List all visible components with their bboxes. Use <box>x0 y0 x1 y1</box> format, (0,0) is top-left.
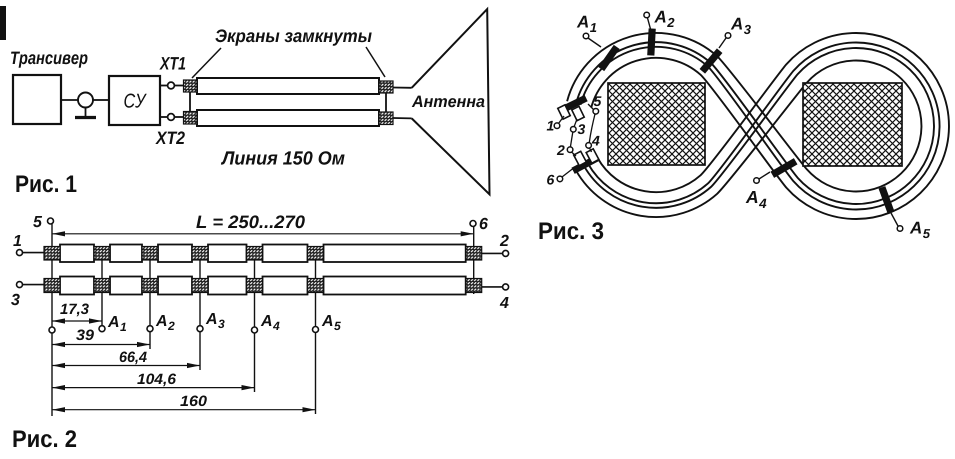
ferrite block right <box>803 83 902 166</box>
terminal circle 6 <box>557 176 563 182</box>
coax line top rect <box>197 78 379 94</box>
label 1 <box>13 235 21 246</box>
braid blocks bottom row <box>44 279 482 293</box>
extension line A3 <box>199 253 201 370</box>
braid block XT1 left <box>184 80 198 92</box>
tap circle A4 <box>754 178 760 184</box>
wire terminal 3 to lug <box>574 119 577 127</box>
wire jumper 3-2 <box>570 132 572 147</box>
label A5 <box>322 315 341 330</box>
braid block bottom right <box>379 112 393 125</box>
terminal bar upper <box>560 95 587 113</box>
shield jumper left <box>189 91 191 112</box>
tap circle A1 <box>583 33 589 39</box>
terminal circle 5 <box>593 109 599 115</box>
connector XT1 circle <box>168 82 175 89</box>
terminal circle 3 <box>571 127 577 133</box>
line sections top row <box>60 245 466 263</box>
caption Рис. 3 <box>540 222 604 239</box>
tap bar A5 <box>878 186 894 214</box>
wire terminal 5 stub <box>588 104 594 110</box>
extension line A4 <box>254 253 256 392</box>
label Трансивер <box>11 52 88 68</box>
pointer line right <box>366 47 385 77</box>
terminal circle 4 <box>586 143 592 149</box>
terminal 6 circle <box>470 221 476 227</box>
wire line to antenna bottom <box>393 117 412 119</box>
label 160 <box>180 396 207 407</box>
shield jumper right <box>385 91 387 112</box>
ferrite block left <box>608 83 705 165</box>
label 6 <box>547 175 554 185</box>
dimension 104,6 <box>53 387 255 389</box>
lug terminal 2 <box>574 151 587 165</box>
label 3 <box>578 124 586 134</box>
wire terminal 4 to lug <box>590 148 592 152</box>
tap bar A3 <box>700 48 723 73</box>
wire terminal 2 <box>482 252 503 254</box>
terminal 4 circle <box>503 284 509 290</box>
label СУ <box>124 94 146 108</box>
extension line A2 <box>149 253 151 349</box>
braid block top right <box>379 81 393 93</box>
tap circle A4 <box>252 327 258 333</box>
label 5 <box>594 96 602 106</box>
extension line datum 5 <box>51 224 53 416</box>
caption Рис. 2 <box>14 430 77 447</box>
label Экраны замкнуты <box>215 29 371 45</box>
lug terminal 4 <box>586 149 599 163</box>
label A4 <box>746 191 767 208</box>
wire tap A4 <box>759 172 770 179</box>
terminal 3 circle <box>17 282 23 288</box>
wire XT2 to line <box>175 116 185 118</box>
dimension L <box>53 233 474 235</box>
wire figure-8 strand 3 <box>581 43 940 210</box>
label 3 <box>11 294 20 305</box>
braid block XT2 left <box>184 112 198 125</box>
extension line A5 <box>315 253 317 414</box>
dimension 17,3 <box>53 320 102 322</box>
wire meter to CY box <box>93 99 109 101</box>
extension line A1 <box>101 253 103 331</box>
tap circle A5 <box>897 226 903 232</box>
tap circle A3 <box>725 33 731 39</box>
label L = 250...270 <box>196 215 304 228</box>
lug terminal 1 <box>558 105 570 119</box>
terminal circle 2 <box>567 147 573 153</box>
tap circle A2 <box>644 12 650 18</box>
label 4 <box>500 297 509 308</box>
tap circle datum <box>49 327 55 333</box>
label A3 <box>731 18 751 34</box>
label A2 <box>156 315 175 330</box>
pointer line left <box>192 48 221 78</box>
label 1 <box>547 121 554 131</box>
dimension 39 <box>53 344 150 346</box>
label 2 <box>557 145 565 155</box>
dimension 66,4 <box>53 365 200 367</box>
tap bar A1 <box>598 45 619 71</box>
wire terminal 6 <box>562 169 573 178</box>
wire terminal 3 <box>22 284 44 286</box>
dimension 160 <box>53 409 316 411</box>
wire terminal 2 to lug <box>572 152 577 156</box>
label 4 <box>592 136 600 146</box>
label A5 <box>910 222 931 238</box>
tap circle A2 <box>147 326 153 332</box>
connector XT2 circle <box>168 114 175 121</box>
antenna triangle <box>412 9 490 194</box>
label Линия 150 Ом <box>221 151 345 165</box>
transceiver box <box>13 75 61 124</box>
terminal 5 circle <box>48 218 54 224</box>
wire tap A1 <box>588 38 601 47</box>
tap bar A2 <box>647 28 656 55</box>
tap circle A1 <box>99 326 105 332</box>
wire tap A2 <box>648 18 651 29</box>
tap bar A4 <box>771 158 798 178</box>
tap circle A3 <box>197 326 203 332</box>
matching unit box U1 <box>109 76 160 125</box>
terminal circle 1 <box>554 123 560 129</box>
meter stem <box>85 108 87 117</box>
label 66,4 <box>120 352 147 365</box>
label XT2 <box>155 131 185 144</box>
wire figure-8 strand 2 <box>576 42 934 208</box>
wire terminal 1 <box>559 116 565 124</box>
wire figure-8 strand 1 <box>567 33 921 217</box>
line sections bottom row <box>60 277 466 295</box>
wire line to antenna top <box>393 87 412 89</box>
label A3 <box>206 313 225 328</box>
wire transceiver to meter <box>61 99 78 101</box>
coax line bottom rect <box>197 110 379 126</box>
wire CY to XT2 <box>160 116 168 118</box>
label 17,3 <box>60 304 89 317</box>
label 6 <box>480 218 488 229</box>
label 104,6 <box>137 374 176 387</box>
wire CY to XT1 <box>160 85 168 87</box>
terminal bar lower <box>571 155 598 174</box>
wire tap A5 <box>891 213 898 226</box>
label A1 <box>577 16 597 32</box>
label 5 <box>33 216 42 227</box>
label A2 <box>654 11 674 27</box>
wire tap A3 <box>719 38 726 48</box>
wire jumper 5-4 <box>589 114 595 143</box>
label 2 <box>500 235 509 246</box>
terminal 2 circle <box>503 250 509 256</box>
RF meter circle <box>78 93 93 108</box>
scan artifact top-left <box>0 6 6 40</box>
label Антенна <box>412 96 485 108</box>
wire terminal 4 <box>482 286 503 288</box>
label A4 <box>261 315 280 330</box>
terminal 1 circle <box>17 250 23 256</box>
label XT1 <box>159 57 185 69</box>
lug terminal 3 <box>572 106 584 120</box>
braid blocks top row <box>44 247 482 261</box>
wire figure-8 strand 4 <box>591 33 949 219</box>
caption Рис. 1 <box>16 176 76 193</box>
wire XT1 to line <box>175 85 185 87</box>
label A1 <box>108 316 126 331</box>
extension line terminal 6 <box>473 226 475 294</box>
label 39 <box>76 330 94 341</box>
tap circle A5 <box>313 327 319 333</box>
meter bar <box>75 116 96 119</box>
wire terminal 1 <box>22 252 44 254</box>
